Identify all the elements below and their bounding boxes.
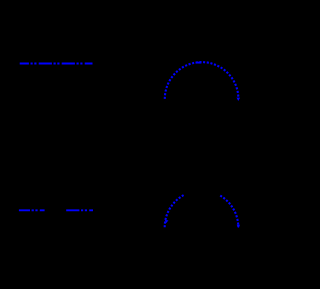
node A merged-dot dash at arc top xyxy=(196,62,202,64)
wire: lower-left dash-dot-dot blue line, left part xyxy=(19,209,45,211)
wire: upper-left horizontal dash-dot-dot blue line xyxy=(20,63,93,65)
node B arrowhead (left end, pointing down-left) xyxy=(165,220,169,223)
node A arrowhead (right end, pointing down) xyxy=(237,98,241,101)
node A: upper-right dotted semicircle contour xyxy=(165,62,239,99)
node B: lower-right dotted arc, left segment (180deg to 117deg) xyxy=(165,195,185,228)
node B arrowhead (right end, pointing down) xyxy=(237,225,241,228)
wire: lower-left dash-dot-dot blue line, right part xyxy=(66,209,93,211)
node B: lower-right dotted arc, right segment (62deg to 0deg) xyxy=(220,196,238,228)
